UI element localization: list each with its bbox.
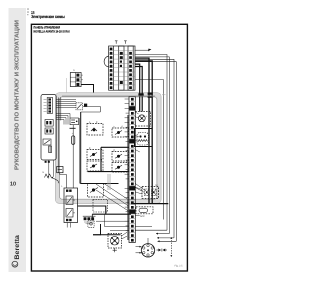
junction blobs on grey band <box>138 93 141 96</box>
grey enclosure halftone band <box>58 95 160 202</box>
frame border <box>31 24 187 271</box>
MOD dashed box <box>142 184 159 199</box>
sidebar grey bar <box>9 8 27 272</box>
heavy mains wire L <box>135 58 149 204</box>
grey enclosure inner edge <box>60 97 157 199</box>
right dashed sensor box 1 <box>112 125 129 137</box>
display comp 3 <box>43 139 51 145</box>
terminal strip left stubs <box>125 99 129 231</box>
selector switch symbol <box>43 171 64 188</box>
wires pump2 to strip <box>122 232 128 236</box>
svg-text:Электрические схемы: Электрические схемы <box>31 14 65 19</box>
grey enclosure outer edge <box>55 93 161 204</box>
connector middle pin squares <box>120 52 123 84</box>
connector top labels <box>115 41 127 44</box>
pump2 dashed box bottom <box>108 234 122 253</box>
terminal strip right diag stubs <box>135 112 142 215</box>
fuse F2 small box <box>57 167 63 173</box>
top connector CN12 body <box>109 46 135 90</box>
wire row5 to bus <box>135 62 176 242</box>
svg-text:РУКОВОДСТВО ПО МОНТАЖУ И ЭКСПЛ: РУКОВОДСТВО ПО МОНТАЖУ И ЭКСПЛУАТАЦИИ <box>13 20 20 170</box>
svg-text:lc: lc <box>43 171 46 174</box>
terminal strip M3 <box>129 97 135 243</box>
grounding terminal cluster <box>83 216 96 223</box>
Z comp box <box>70 118 79 125</box>
corner specks <box>27 9 29 16</box>
ribbon wires display to board bundle1 <box>56 100 76 108</box>
wire arrow from connector row1 <box>135 49 149 51</box>
gas valve solid box <box>135 129 153 147</box>
wire fuse2 to relay <box>60 173 67 188</box>
bottom wire bus a <box>136 229 168 231</box>
right dashed sensor box 2 <box>112 149 129 161</box>
bottom wire bus c <box>157 237 174 239</box>
display pin header <box>44 98 53 114</box>
display unit box <box>41 95 56 161</box>
connector right pin squares <box>129 52 132 89</box>
connector left pin squares <box>110 48 113 89</box>
inner dashed sensor box 3 <box>87 161 103 171</box>
ACF link wire <box>135 225 152 227</box>
right dashed sensor box 3 <box>112 163 129 173</box>
faint wire to enclosure corner <box>66 78 68 93</box>
bottom wire bus d <box>158 240 177 242</box>
inner dashed sensor box 1 <box>87 121 103 135</box>
wire row4 to bus <box>135 59 174 238</box>
ribbon bundle2 with corners <box>56 114 70 125</box>
pump dashed box <box>135 112 150 127</box>
heavy line to gas valve <box>131 203 168 205</box>
svg-text:+: + <box>146 115 148 118</box>
heavy mains wire N <box>135 61 152 204</box>
display comp 4 vertical <box>49 146 52 153</box>
terminal strip dark cells <box>129 106 135 214</box>
display comp 1 <box>45 120 53 127</box>
jumper comp JP <box>76 103 100 112</box>
thick link wires lower center <box>78 206 106 214</box>
relay unit box <box>64 188 78 223</box>
inner dashed sensor box 2 <box>87 147 103 160</box>
dashed box lower pcb 2 <box>93 200 108 213</box>
grey band horizontal enclosure top highlight <box>62 95 155 97</box>
wire row8 to bus <box>135 80 164 220</box>
svg-text:h: h <box>74 69 76 72</box>
connector plug arrows <box>157 249 168 252</box>
display bottom marks <box>45 161 50 163</box>
feed wires into connector <box>136 247 142 253</box>
svg-text:E: E <box>96 121 98 124</box>
svg-text:M: M <box>156 184 158 187</box>
transformer thick wires bottom <box>93 224 101 235</box>
connector row divider lines <box>109 51 135 85</box>
bottom wire bus b <box>156 233 169 235</box>
display comp 2 <box>45 128 53 134</box>
connector clip bracket <box>104 56 109 67</box>
svg-text:Beretta: Beretta <box>14 235 21 260</box>
heavy drop wire to pump box a <box>135 64 140 111</box>
svg-text:10: 10 <box>10 181 16 187</box>
Beretta logo <box>12 235 21 267</box>
vertical wires left of terminal strip <box>126 115 128 240</box>
svg-text:+: + <box>61 184 63 188</box>
wire row3 to bus <box>135 57 169 234</box>
svg-text:NOVELLA AVANTA 24-28 SI RAI: NOVELLA AVANTA 24-28 SI RAI <box>34 29 70 33</box>
MOD feed diagonals <box>135 184 144 193</box>
svg-text:Fig. 2.5: Fig. 2.5 <box>175 265 184 268</box>
TA dashed cable <box>170 237 172 257</box>
fuse F1 <box>72 118 80 188</box>
grey vertical pair lower mid <box>107 174 109 190</box>
small dashed sensor bottom left <box>88 220 94 227</box>
svg-text:R: R <box>74 212 76 215</box>
wire from strip bottom to circle <box>147 238 149 244</box>
heavy drop wire to pump box b <box>135 67 142 112</box>
bottom circular connector <box>141 244 154 257</box>
dash mark <box>70 127 76 129</box>
PCB box <box>81 112 129 184</box>
wires from display box bottom to switch <box>48 160 50 179</box>
ignition box ACF dashed <box>136 207 153 218</box>
svg-text:ACF: ACF <box>140 215 145 218</box>
wire row2 to bus <box>135 55 167 231</box>
relay bottom stubs <box>67 223 70 228</box>
component CN2 small <box>70 69 83 86</box>
wire from CN2 to enclosure <box>81 85 93 93</box>
grey band corner tick <box>162 93 166 97</box>
diagonal wires <box>96 184 129 212</box>
dashed sensor box lower pcb <box>88 184 104 198</box>
enclosure left drop wires <box>58 98 60 167</box>
lower link wires <box>96 214 129 230</box>
